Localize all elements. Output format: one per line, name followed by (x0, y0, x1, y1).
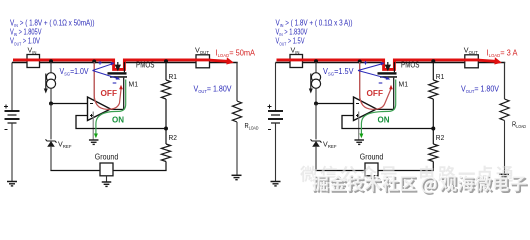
wire right circuit feedback: inverting input loop (342, 116, 434, 129)
watermark 掘金技术社区 @ 观海微电子 (300, 165, 528, 194)
wire right circuit load to ground (504, 121, 506, 175)
junction right circuit rail to R1 tap (431, 59, 435, 63)
connector box left circuit VIN terminal (27, 55, 40, 68)
svg-text:VSG​=1.0V: VSG​=1.0V (60, 67, 90, 77)
junction left circuit rail to R1 tap (164, 59, 168, 63)
label right circuit R1 (436, 72, 445, 81)
wire right circuit VREF node to op-amp noninverting input (316, 103, 354, 105)
wire right circuit VREF node to zener cathode (315, 104, 317, 140)
junction left circuit rail to current source tap (49, 59, 53, 63)
svg-text:OFF: OFF (367, 89, 384, 98)
wire right circuit rail to R1 (432, 62, 434, 80)
connector box left circuit VOUT terminal (196, 55, 210, 68)
label left circuit R_LOAD (245, 121, 260, 131)
label right circuit V_IN terminal (291, 46, 300, 56)
label right circuit V_REF (323, 139, 337, 149)
svg-text:R1: R1 (169, 72, 178, 81)
wire left circuit feedback: inverting input loop (76, 116, 167, 129)
wire right circuit op-amp output to M1 gate (377, 108, 395, 110)
wire right circuit op-amp negative supply to ground (358, 112, 360, 140)
annotation left circuit red OFF arc (gate pulled high path) (94, 64, 123, 110)
svg-text:R2: R2 (169, 133, 178, 142)
annotation left circuit blue plus polarity at source (98, 61, 102, 65)
label left circuit M1 (129, 79, 139, 88)
label left circuit ON (green) (112, 115, 124, 124)
annotation left circuit green ON arc (gate pulled to ground path) (94, 80, 126, 139)
junction left circuit rail to op-amp supply tap (92, 60, 96, 64)
wire left circuit op-amp negative supply to ground (92, 112, 94, 140)
wire left circuit rail to R1 (165, 62, 167, 80)
label right circuit condition line 2 (blue) (276, 28, 309, 38)
label right circuit R2 (436, 133, 445, 142)
wire right circuit op-amp positive supply from rail (359, 62, 361, 100)
label left circuit OFF (red) (101, 89, 118, 98)
svg-text:Ground: Ground (360, 153, 384, 162)
label left circuit R1 (169, 72, 178, 81)
label right circuit condition line 1 (blue) (276, 19, 353, 29)
wire right circuit top rail (black, under red current path) (276, 62, 506, 64)
connector box left circuit Ground terminal (100, 163, 113, 176)
wire right circuit R2 to bottom rail (432, 129, 434, 171)
transistor M1 right circuit PMOS pass element (378, 62, 398, 109)
transistor M1 left circuit PMOS pass element (108, 62, 128, 109)
label left circuit V_REF (58, 139, 72, 149)
wire right circuit bottom ground rail (315, 170, 434, 172)
wire left circuit red current path along VIN rail through M1 to VOUT (13, 57, 234, 69)
resistor RLOAD left circuit load resistor (232, 101, 241, 122)
resistor RLOAD right circuit load resistor (500, 99, 509, 121)
label left circuit PMOS (136, 60, 155, 70)
wire right circuit input rail vertical from VIN rail to battery (275, 63, 277, 112)
current source left circuit reference bias source (44, 73, 56, 94)
label right circuit OFF (red) (367, 89, 384, 98)
label left circuit V_OUT terminal (195, 46, 209, 56)
op-amp U1 right circuit error amplifier (354, 97, 377, 121)
label right circuit V_SG value (blue) (323, 67, 354, 77)
wire left circuit op-amp positive supply from rail (93, 62, 95, 100)
svg-text:OFF: OFF (101, 89, 118, 98)
battery right circuit input supply (268, 105, 284, 130)
wire left circuit input rail vertical from VIN rail to battery (11, 63, 13, 112)
ground left circuit battery ground symbol (7, 182, 17, 186)
wire right circuit current source to VREF node (315, 88, 317, 103)
wire right circuit battery negative to ground (275, 123, 277, 182)
label left circuit V_IN terminal (28, 46, 37, 56)
wire left circuit op-amp output to M1 gate (111, 108, 125, 110)
label left circuit condition line 1 (blue) (10, 19, 95, 29)
ground right circuit load ground symbol (499, 174, 509, 178)
resistor R1 right circuit upper divider (429, 80, 438, 99)
wire left circuit zener anode to bottom rail (50, 147, 52, 171)
ground right circuit battery ground symbol (271, 182, 281, 186)
svg-text:M1: M1 (129, 79, 139, 88)
svg-text:R1: R1 (436, 72, 445, 81)
annotation left circuit blue minus polarity at gate (113, 82, 117, 84)
wire right circuit rail to current source (315, 62, 317, 73)
diode VREF left circuit zener reference (46, 139, 57, 146)
connector box right circuit VIN terminal (290, 55, 303, 68)
label right circuit M1 (399, 79, 409, 88)
svg-text:PMOS: PMOS (401, 60, 420, 70)
wire left circuit top rail (black, under red current path) (12, 62, 238, 64)
connector box right circuit Ground terminal (365, 163, 378, 176)
ground left circuit op-amp supply ground (89, 140, 99, 144)
wire right circuit zener anode to bottom rail (315, 147, 317, 171)
svg-text:M1: M1 (399, 79, 409, 88)
label right circuit condition line 3 (blue) (276, 37, 306, 47)
battery left circuit input supply (4, 105, 20, 130)
connector box right circuit VOUT terminal (465, 55, 479, 68)
resistor R2 left circuit lower divider (161, 144, 170, 162)
svg-text:ON: ON (112, 115, 124, 124)
wire left circuit VOUT corner down to load (236, 62, 238, 101)
ground right circuit below Ground terminal box (367, 176, 377, 187)
label right circuit R_LOAD (512, 120, 527, 130)
junction right circuit rail to current source tap (314, 59, 318, 63)
svg-text:PMOS: PMOS (136, 60, 155, 70)
annotation right circuit red OFF arc (gate pulled high path) (360, 64, 393, 110)
diode VREF right circuit zener reference (311, 139, 322, 146)
label left circuit R2 (169, 133, 178, 142)
ground left circuit below Ground terminal box (102, 176, 112, 187)
svg-text:Ground: Ground (95, 153, 119, 162)
label left circuit condition line 2 (blue) (10, 28, 42, 38)
annotation right circuit blue arrow to M1 gate (358, 71, 390, 80)
svg-text:R2: R2 (436, 133, 445, 142)
label left circuit output voltage (blue) (194, 84, 233, 94)
wire left circuit R1 to feedback node (165, 99, 167, 129)
wire left circuit rail to current source (50, 62, 52, 73)
label right circuit I_LOAD value (red) (487, 48, 519, 58)
junction right circuit feedback node at R1/R2 divider (431, 127, 435, 131)
label left circuit V_SG value (blue) (60, 67, 90, 77)
wire left circuit battery negative to ground (11, 123, 13, 182)
label right circuit V_OUT terminal (464, 46, 478, 56)
annotation right circuit blue plus polarity at source (364, 61, 368, 65)
label left circuit condition line 3 (blue) (10, 37, 41, 47)
junction right circuit rail to op-amp supply tap (358, 60, 362, 64)
label right circuit PMOS (401, 60, 420, 70)
svg-text:VSG​=1.5V: VSG​=1.5V (323, 67, 354, 77)
label left circuit Ground (95, 153, 119, 162)
label right circuit output voltage (blue) (461, 84, 500, 94)
label right circuit Ground (360, 153, 384, 162)
label left circuit I_LOAD value (red) (216, 48, 256, 58)
annotation left circuit blue arrow to M1 source (93, 62, 115, 70)
label right circuit ON (green) (378, 115, 390, 124)
node left circuit VREF node junction (49, 102, 53, 106)
node right circuit VREF node junction (314, 102, 318, 106)
wire left circuit R2 to bottom rail (165, 129, 167, 171)
svg-text:ON: ON (378, 115, 390, 124)
junction left circuit feedback node at R1/R2 divider (164, 127, 168, 131)
wire left circuit VREF node to zener cathode (50, 104, 52, 140)
wire left circuit bottom ground rail (50, 170, 166, 172)
wire right circuit red current path along VIN rail through M1 to VOUT (277, 57, 502, 69)
wire left circuit load to ground (236, 122, 238, 175)
annotation left circuit blue arrow to M1 gate (93, 71, 121, 80)
resistor R2 right circuit lower divider (429, 144, 438, 162)
wire left circuit current source to VREF node (50, 88, 52, 103)
wire right circuit VOUT corner down to load (504, 62, 506, 99)
wire left circuit VREF node to op-amp noninverting input (51, 103, 88, 105)
ground left circuit load ground symbol (232, 175, 242, 179)
op-amp U1 left circuit error amplifier (88, 97, 111, 121)
annotation right circuit blue minus polarity at gate (379, 82, 383, 84)
current source right circuit reference bias source (309, 73, 321, 94)
resistor R1 left circuit upper divider (161, 80, 170, 99)
wire right circuit R1 to feedback node (432, 99, 434, 129)
ground right circuit op-amp supply ground (354, 140, 364, 144)
annotation right circuit green ON arc (gate pulled to ground path) (359, 80, 395, 139)
annotation right circuit blue arrow to M1 source (358, 62, 385, 70)
